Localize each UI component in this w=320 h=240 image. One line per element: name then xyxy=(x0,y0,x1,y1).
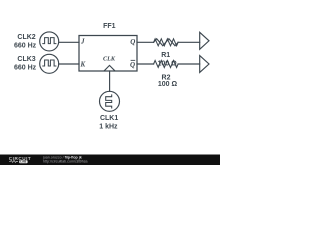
svg-text:660 Hz: 660 Hz xyxy=(14,65,37,72)
voltage source CLK3 xyxy=(40,54,59,73)
resistor R1 xyxy=(154,39,179,46)
voltage source CLK2 xyxy=(40,32,59,51)
svg-text:1 kHz: 1 kHz xyxy=(99,124,118,131)
svg-text:CLK2: CLK2 xyxy=(17,34,35,41)
svg-text:FF1: FF1 xyxy=(103,23,116,30)
svg-text:R1: R1 xyxy=(161,52,170,59)
footer credit text xyxy=(42,156,88,164)
svg-text:CLK1: CLK1 xyxy=(100,115,118,122)
square wave glyph CLK3 xyxy=(43,60,56,66)
svg-text:CLK: CLK xyxy=(103,55,116,62)
square wave glyph CLK1 (rotated) xyxy=(106,95,112,108)
wire FF1 CLK to CLK1 xyxy=(109,71,111,91)
svg-text:Q: Q xyxy=(130,38,135,46)
arrow/buffer triangle 2 xyxy=(200,56,209,73)
svg-text:CLK3: CLK3 xyxy=(17,56,35,63)
voltage source CLK1 xyxy=(100,91,120,111)
svg-text:J: J xyxy=(80,38,85,46)
wire CLK3 to K xyxy=(59,63,79,65)
svg-text:660 Hz: 660 Hz xyxy=(14,42,37,49)
svg-text:100 Ω: 100 Ω xyxy=(158,81,178,88)
svg-text:100 Ω: 100 Ω xyxy=(157,61,177,68)
arrow/buffer triangle 1 xyxy=(200,32,209,49)
svg-text:http://circuitlab.com/c8t9hsa: http://circuitlab.com/c8t9hsa xyxy=(43,159,88,163)
wire R1 to arrow 1 xyxy=(178,41,200,43)
svg-text:Q: Q xyxy=(130,61,135,69)
svg-text:LAB: LAB xyxy=(20,160,26,164)
footer bar xyxy=(0,155,220,166)
square wave glyph CLK2 xyxy=(43,38,56,44)
svg-text:K: K xyxy=(80,60,87,68)
wire Qbar to R2 xyxy=(137,63,154,65)
flip-flop U-box FF1 xyxy=(79,36,137,72)
wire R2 to arrow 2 xyxy=(178,63,200,65)
CircuitLab logo wordmark xyxy=(9,156,31,164)
resistor R2 xyxy=(154,61,179,68)
wire CLK2 to J xyxy=(59,41,79,43)
clock edge triangle on FF1 xyxy=(104,65,115,70)
wire Q to R1 xyxy=(137,41,154,43)
